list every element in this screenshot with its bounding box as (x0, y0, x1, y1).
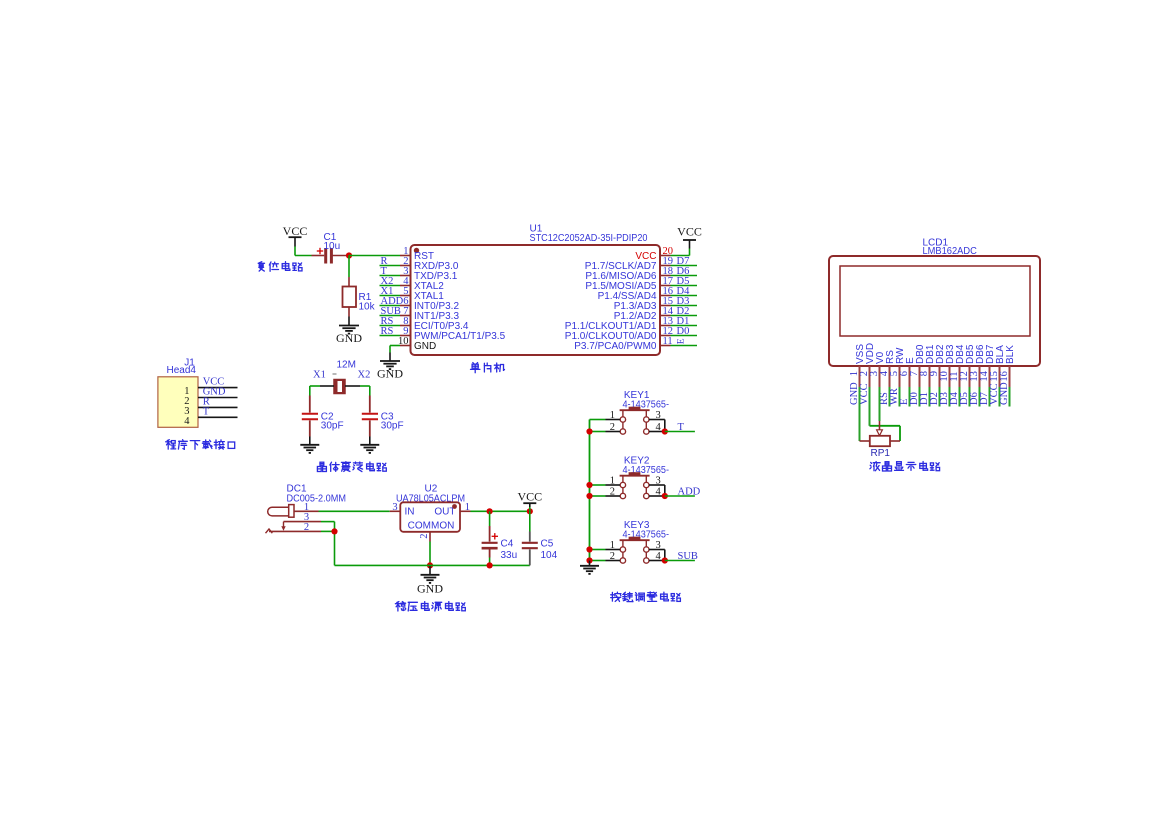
capacitor C3 30pF (362, 396, 404, 437)
U2 pin 3 IN (390, 502, 401, 513)
junction (KEY1 output) (662, 428, 668, 434)
svg-text:33u: 33u (501, 550, 518, 561)
wire U1 pin20 to VCC (671, 240, 690, 256)
junction node RST (346, 252, 352, 258)
J1 pin 2 (184, 396, 237, 407)
KEY2 pin 1 (606, 476, 621, 487)
section label regulated power supply circuit (395, 602, 465, 611)
U1 pin 15 P1.3/AD3 (614, 296, 673, 312)
designator U1 (530, 224, 543, 235)
wire U1 pin10 to ground (390, 346, 400, 362)
ground (C3) (360, 445, 379, 453)
net label D0 (LCD pin 7) (909, 392, 920, 405)
wire LCD pin 15 (999, 387, 1001, 407)
U2 pin 2 COMMON (419, 532, 430, 542)
wire + net label T (665, 422, 695, 433)
wire bus to KEY3 (590, 550, 606, 561)
U1 pin 17 P1.5/MOSI/AD5 (585, 276, 673, 292)
KEY1 pin 2 (606, 422, 621, 433)
switch KEY3 4-1437565- (620, 520, 669, 563)
key bus wire (589, 420, 591, 561)
svg-text:2: 2 (419, 534, 430, 539)
wire + net label E (pin 11) (671, 338, 698, 345)
U1 pin 19 P1.7/SCLK/AD7 (585, 256, 673, 272)
svg-text:GND: GND (999, 382, 1010, 405)
junction (gnd bus at U2) (427, 562, 433, 568)
wire LCD pin 13 (979, 387, 981, 407)
net label GND (J1 pin 2) (203, 387, 226, 398)
KEY3 pin 3 (649, 540, 665, 561)
svg-text:T: T (678, 422, 685, 433)
KEY1 pin 4 (649, 422, 665, 433)
svg-text:3: 3 (392, 502, 397, 513)
connector DC1 DC005-2.0MM (268, 484, 346, 518)
wire junction down to R1 (348, 256, 350, 287)
svg-text:10u: 10u (324, 241, 341, 252)
capacitor C2 30pF (302, 396, 344, 437)
svg-text:IN: IN (405, 507, 415, 518)
wire + net label RS (pin 9) (380, 326, 401, 337)
junction (bus KEY2 pin2) (586, 493, 592, 499)
net label GND (LCD pin 16) (999, 382, 1010, 405)
svg-text:3: 3 (656, 476, 661, 487)
ground GND (reset) (336, 326, 362, 345)
section label crystal oscillator circuit (317, 462, 386, 472)
section label program download port (166, 440, 235, 450)
wire crystal left (310, 386, 334, 396)
KEY3 pin 1 (606, 540, 621, 551)
net label X1 (crystal) (313, 370, 326, 381)
svg-text:16: 16 (999, 371, 1010, 382)
wire LCD VSS to RP1 (859, 387, 861, 441)
svg-text:1: 1 (610, 476, 615, 487)
U1 pin 8 ECI/T0/P3.4 (400, 316, 469, 332)
wire U2 OUT to VCC (471, 510, 530, 512)
svg-text:RP1: RP1 (871, 448, 891, 459)
svg-text:1: 1 (465, 502, 470, 513)
LCD1 pin 14 DB7 (979, 344, 996, 387)
wire LCD pin 4 (889, 387, 891, 407)
J1 pin 4 (184, 416, 237, 427)
wire + net label R (pin 2) (380, 256, 401, 267)
svg-text:ADD: ADD (678, 487, 701, 498)
svg-text:P3.7/PCA0/PWM0: P3.7/PCA0/PWM0 (574, 341, 657, 352)
svg-text:VCC: VCC (517, 490, 542, 504)
U1 pin 12 P1.0/CLKOUT0/AD0 (565, 326, 673, 342)
wire + net label ADD (pin 6) (380, 296, 404, 307)
LCD1 pin 9 DB2 (929, 344, 946, 387)
LCD1 pin 5 RW (889, 347, 906, 387)
LCD1 pin 8 DB1 (919, 344, 936, 387)
wire LCD pin 10 (949, 387, 951, 407)
svg-text:GND: GND (417, 582, 443, 596)
wire + net label D0 (pin 12) (671, 326, 698, 337)
LCD1 pin 4 RS (879, 350, 896, 387)
wire LCD VDD to RP1 (870, 387, 901, 441)
svg-text:10k: 10k (359, 302, 376, 313)
junction (DC1 pin2) (331, 528, 337, 534)
section label LCD display circuit (870, 462, 940, 472)
wire + net label D1 (pin 13) (671, 316, 698, 327)
wire crystal right (345, 386, 370, 396)
junction (KEY3 output) (662, 557, 668, 563)
DC1 pin 2 (266, 522, 322, 533)
wire + net label D6 (pin 18) (671, 266, 698, 277)
svg-text:RS: RS (381, 326, 394, 337)
resistor R1 10k (343, 287, 376, 313)
U1 pin 20 VCC (635, 246, 673, 262)
svg-text:BLK: BLK (1005, 345, 1016, 364)
svg-text:GND: GND (414, 341, 436, 352)
svg-text:4: 4 (656, 487, 662, 498)
wire DC1 pin2 to gnd bus (321, 531, 335, 565)
wire LCD pin 16 (1009, 387, 1011, 407)
LCD1 pin 16 BLK (999, 345, 1016, 387)
net label D2 (LCD pin 9) (929, 392, 940, 405)
junction (bus KEY2 pin1) (586, 482, 592, 488)
U1 pin 10 GND (398, 336, 436, 352)
ground (C2) (300, 445, 319, 453)
wire bus to KEY2 (590, 485, 606, 496)
net label X2 (crystal) (358, 370, 371, 381)
wire C3 to ground (369, 437, 371, 445)
ground GND (U1 pin10) (377, 361, 403, 381)
svg-text:E: E (677, 338, 687, 344)
svg-text:DC005-2.0MM: DC005-2.0MM (287, 494, 347, 505)
wire LCD V0 to RP1 wiper (877, 387, 883, 436)
J1 pin 1 (184, 386, 237, 397)
KEY3 pin 4 (649, 551, 665, 562)
wire LCD pin 6 (909, 387, 911, 407)
wire LCD pin 7 (919, 387, 921, 407)
svg-text:2: 2 (304, 522, 309, 533)
net label D5 (LCD pin 12) (959, 392, 970, 405)
net label D6 (LCD pin 13) (969, 392, 980, 405)
power port VCC (regulator output) (517, 490, 542, 512)
svg-text:SUB: SUB (678, 551, 698, 562)
U2 pin 1 OUT (460, 502, 471, 513)
DC1 pin 1 (294, 502, 319, 513)
IC U1 STC12C2052AD body (411, 245, 661, 355)
junction (KEY2 output) (662, 493, 668, 499)
net label VCC (LCD pin 15) (989, 383, 1000, 405)
LCD1 pin 11 DB4 (949, 344, 966, 387)
svg-text:4: 4 (656, 422, 662, 433)
U1 pin 18 P1.6/MISO/AD6 (585, 266, 673, 282)
wire + net label T (pin 3) (380, 266, 401, 277)
wire + net label RS (pin 8) (380, 316, 401, 327)
svg-text:VCC: VCC (677, 225, 702, 239)
svg-text:30pF: 30pF (381, 421, 404, 432)
wire DC1 pin3 to pin2 (321, 522, 335, 532)
KEY3 pin 2 (606, 551, 621, 562)
KEY1 pin 1 (606, 410, 621, 421)
capacitor C1 10u (312, 232, 350, 264)
wire + net label D2 (pin 14) (671, 306, 698, 317)
value STC12C2052AD-35I-PDIP20 (530, 233, 648, 244)
wire R1 to ground (348, 307, 350, 326)
net label WR (LCD pin 5) (889, 388, 900, 405)
wire LCD pin 9 (939, 387, 941, 407)
gnd bus wire (335, 564, 530, 566)
svg-text:4: 4 (656, 551, 662, 562)
switch KEY1 4-1437565- (620, 390, 669, 434)
junction (VCC/C5 top) (527, 508, 533, 514)
junction (C4 bottom) (487, 562, 493, 568)
wire VCC to C1 (295, 255, 312, 257)
LCD1 pin 10 DB3 (939, 344, 956, 387)
net label GND (LCD pin 1) (849, 382, 860, 405)
svg-text:VCC: VCC (859, 383, 870, 405)
U1 pin 14 P1.2/AD2 (614, 306, 674, 322)
svg-text:C5: C5 (541, 539, 554, 550)
LCD1 pin 1 VSS (849, 344, 866, 387)
net label D7 (LCD pin 14) (979, 392, 990, 405)
switch KEY2 4-1437565- (620, 456, 669, 499)
KEY2 pin 2 (606, 487, 621, 498)
J1 pin 3 (184, 406, 237, 417)
svg-text:4: 4 (184, 416, 190, 427)
U1 pin 5 XTAL1 (400, 286, 444, 302)
wire LCD pin 14 (989, 387, 991, 407)
U1 pin 3 TXD/P3.1 (400, 266, 458, 282)
U1 pin 6 INT0/P3.2 (400, 296, 459, 312)
svg-text:OUT: OUT (434, 507, 455, 518)
LCD1 pin 6 E (899, 357, 916, 387)
wire + net label X1 (pin 5) (380, 286, 401, 297)
svg-text:VCC: VCC (283, 224, 308, 238)
LCD1 pin 7 DB0 (909, 344, 926, 387)
capacitor C5 104 (522, 511, 558, 565)
svg-text:X2: X2 (358, 370, 371, 381)
wire bus to KEY1 (590, 420, 606, 432)
svg-text:30pF: 30pF (321, 421, 344, 432)
LCD1 pin 3 V0 (869, 351, 886, 387)
svg-text:1: 1 (610, 410, 615, 421)
U1 pin 13 P1.1/CLKOUT1/AD1 (565, 316, 673, 332)
junction (bus KEY1) (586, 428, 592, 434)
wire LCD pin 12 (969, 387, 971, 407)
svg-text:STC12C2052AD-35I-PDIP20: STC12C2052AD-35I-PDIP20 (530, 233, 648, 244)
svg-text:GND: GND (377, 367, 403, 381)
U1 pin 9 PWM/PCA1/T1/P3.5 (400, 326, 506, 342)
net label D3 (LCD pin 10) (939, 392, 950, 405)
wire C1 to U1 pin1 (349, 255, 400, 257)
wire + net label D3 (pin 15) (671, 296, 698, 307)
net label RS (LCD pin 4) (879, 392, 890, 405)
LCD1 pin 13 DB6 (969, 344, 986, 387)
wire DC1 to U2 IN (319, 510, 390, 512)
U1 pin 11 P3.7/PCA0/PWM0 (574, 336, 672, 352)
svg-text:GND: GND (336, 331, 362, 345)
U1 pin 1 RST (400, 246, 434, 262)
wire U2 pin2 down (429, 542, 431, 566)
net label E (LCD pin 6) (899, 399, 910, 405)
net label T (J1 pin 4) (203, 406, 210, 417)
wire C2 to ground (309, 437, 311, 445)
display LCD1 LMB162ADC body (829, 237, 1040, 366)
KEY2 pin 3 (649, 476, 665, 497)
U1 pin 16 P1.4/SS/AD4 (598, 286, 673, 302)
svg-text:Head4: Head4 (167, 365, 197, 376)
net label D4 (LCD pin 11) (949, 391, 960, 405)
svg-text:3: 3 (656, 540, 661, 551)
svg-text:X1: X1 (313, 370, 326, 381)
svg-text:3: 3 (656, 410, 661, 421)
section label reset circuit (258, 262, 302, 272)
svg-text:2: 2 (610, 422, 615, 433)
crystal Y1 12M (333, 360, 356, 394)
DC1 pin 3 (281, 512, 321, 531)
power port VCC (U1 pin20) (677, 225, 702, 241)
wire + net label SUB (pin 7) (380, 306, 401, 317)
svg-text:C4: C4 (501, 539, 514, 550)
U1 pin 2 RXD/P3.0 (400, 256, 459, 272)
LCD1 pin 12 DB5 (959, 344, 976, 387)
section label MCU (471, 363, 505, 373)
svg-text:D0: D0 (677, 326, 690, 337)
U1 pin 7 INT1/P3.3 (400, 306, 459, 322)
U1 pin 4 XTAL2 (400, 276, 444, 292)
junction (bus KEY3 pin2) (586, 557, 592, 563)
power port VCC (reset circuit) (283, 224, 308, 256)
wire LCD pin 8 (929, 387, 931, 407)
regulator U2 UA78L05ACLPM (396, 484, 465, 532)
ground GND (power supply) (417, 565, 443, 595)
junction (C4 top) (487, 508, 493, 514)
net label R (J1 pin 3) (203, 396, 210, 407)
KEY2 pin 4 (649, 487, 665, 498)
svg-text:T: T (203, 406, 210, 417)
wire LCD pin 11 (959, 387, 961, 407)
KEY1 pin 3 (649, 410, 665, 432)
svg-text:12M: 12M (337, 360, 356, 371)
wire + net label X2 (pin 4) (380, 276, 401, 287)
LCD1 pin 2 VDD (859, 343, 876, 387)
svg-text:1: 1 (610, 540, 615, 551)
net label D1 (LCD pin 8) (919, 392, 930, 405)
section label key adjust circuit (611, 592, 681, 602)
wire + net label D4 (pin 16) (671, 286, 698, 297)
ground (key bus) (580, 561, 599, 574)
wire + net label D5 (pin 17) (671, 276, 698, 287)
wire + net label SUB (665, 551, 698, 562)
net label VCC (J1 pin 1) (203, 377, 225, 388)
wire + net label ADD (665, 487, 701, 498)
svg-text:104: 104 (541, 550, 558, 561)
potentiometer RP1 (860, 436, 901, 459)
svg-text:2: 2 (610, 487, 615, 498)
junction (bus KEY3 pin1) (586, 546, 592, 552)
svg-text:COMMON: COMMON (408, 521, 455, 532)
wire LCD pin 5 (899, 387, 901, 407)
wire + net label D7 (pin 19) (671, 256, 698, 267)
capacitor C4 33u (482, 511, 518, 565)
LCD1 pin 15 BLA (989, 345, 1006, 387)
net label VCC (LCD pin 2) (859, 383, 870, 405)
svg-text:2: 2 (610, 551, 615, 562)
connector J1 Head4 (158, 358, 198, 428)
